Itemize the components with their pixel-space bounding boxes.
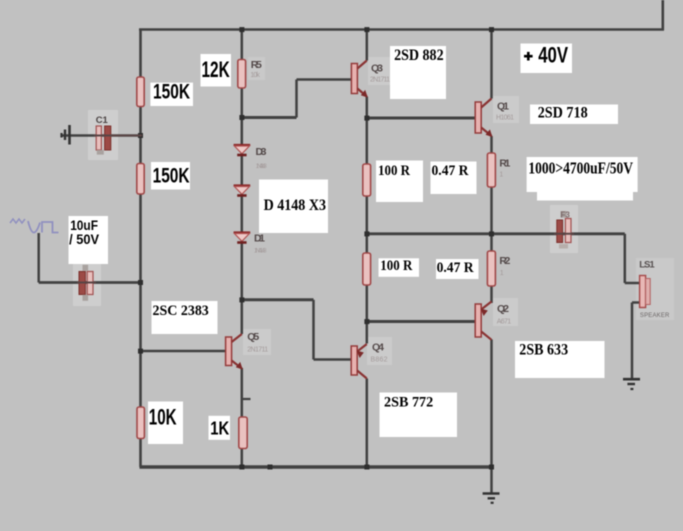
svg-text:C1: C1: [96, 115, 109, 126]
svg-text:A671: A671: [497, 319, 512, 326]
svg-text:12K: 12K: [202, 57, 230, 82]
svg-text:Q1: Q1: [497, 101, 509, 113]
svg-text:H1061: H1061: [496, 115, 514, 122]
svg-text:0.47 R: 0.47 R: [437, 260, 474, 276]
svg-text:R2: R2: [499, 255, 510, 267]
svg-text:Q4: Q4: [372, 342, 384, 354]
svg-text:2SD 718: 2SD 718: [538, 104, 588, 121]
svg-text:Q2: Q2: [497, 303, 509, 315]
svg-text:1N4148: 1N4148: [256, 164, 268, 170]
svg-text:1K: 1K: [210, 419, 229, 439]
svg-text:1000>4700uF/50V: 1000>4700uF/50V: [528, 158, 633, 177]
svg-text:R5: R5: [251, 59, 262, 71]
svg-text:SPEAKER: SPEAKER: [640, 313, 670, 319]
svg-text:LS1: LS1: [639, 260, 655, 271]
svg-text:150K: 150K: [153, 81, 190, 104]
svg-text:150K: 150K: [153, 165, 190, 188]
svg-text:Q3: Q3: [371, 63, 383, 75]
svg-text:1: 1: [499, 172, 503, 179]
svg-text:Q5: Q5: [247, 331, 259, 343]
svg-text:100 R: 100 R: [380, 258, 412, 274]
svg-text:10K: 10K: [149, 404, 177, 429]
svg-text:0.47 R: 0.47 R: [432, 163, 469, 179]
svg-text:10k: 10k: [250, 72, 260, 79]
svg-text:2N1711: 2N1711: [247, 347, 268, 354]
svg-text:2N1711: 2N1711: [370, 77, 390, 84]
svg-text:1: 1: [500, 270, 504, 277]
svg-text:40V: 40V: [538, 43, 568, 68]
svg-text:100 R: 100 R: [378, 163, 410, 179]
svg-text:/ 50V: / 50V: [69, 231, 100, 247]
svg-text:B862: B862: [371, 357, 388, 364]
svg-text:D3: D3: [256, 146, 267, 158]
svg-text:2SB 772: 2SB 772: [384, 394, 433, 410]
svg-text:R1: R1: [499, 158, 510, 170]
svg-text:D 4148 X3: D 4148 X3: [264, 197, 327, 214]
svg-text:D1: D1: [254, 233, 265, 245]
svg-text:1N4148: 1N4148: [254, 249, 267, 255]
svg-text:F3: F3: [561, 211, 571, 220]
svg-text:2SB 633: 2SB 633: [519, 341, 568, 358]
svg-text:2SC 2383: 2SC 2383: [153, 303, 209, 319]
svg-text:2SD 882: 2SD 882: [394, 47, 444, 64]
